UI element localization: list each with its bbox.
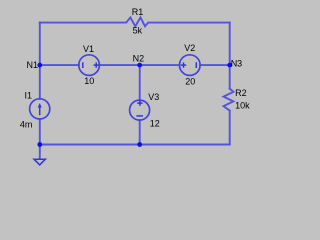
svg-text:12: 12 [150, 119, 160, 129]
svg-text:10k: 10k [235, 101, 250, 111]
svg-text:10: 10 [84, 76, 94, 86]
svg-text:4m: 4m [20, 119, 33, 129]
svg-text:N1: N1 [27, 60, 39, 70]
svg-text:V1: V1 [83, 44, 94, 54]
svg-text:R1: R1 [132, 7, 144, 17]
svg-text:N3: N3 [231, 58, 243, 68]
svg-text:R2: R2 [235, 88, 247, 98]
svg-text:V3: V3 [148, 92, 159, 102]
svg-text:I1: I1 [25, 91, 33, 101]
svg-text:5k: 5k [133, 26, 143, 36]
svg-text:V2: V2 [184, 43, 195, 53]
svg-text:N2: N2 [133, 54, 145, 64]
svg-text:20: 20 [185, 77, 195, 87]
